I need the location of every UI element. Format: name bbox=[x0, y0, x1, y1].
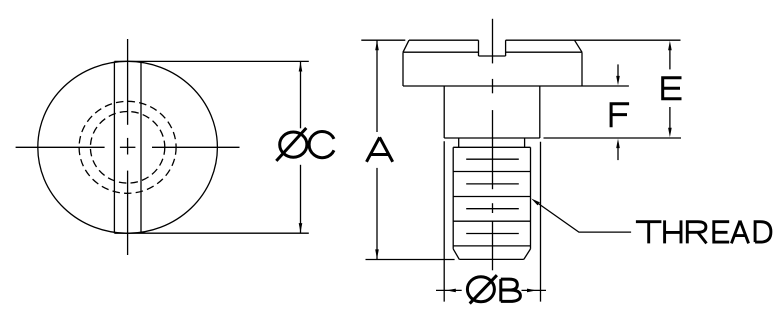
label ØC bbox=[280, 132, 307, 157]
ØB right extension line bbox=[540, 142, 542, 302]
ØB dimension line with arrows bbox=[436, 289, 462, 291]
head top-right chamfer bbox=[575, 40, 583, 52]
hidden circle - thread diameter (dashed) bbox=[90, 112, 164, 184]
thread end chamfers and bottom edge bbox=[453, 249, 459, 260]
F dimension lower arrow (outside, pointing up) bbox=[616, 139, 620, 149]
head top-left chamfer bbox=[403, 40, 409, 52]
slot (side view) bbox=[478, 40, 480, 56]
head left side bbox=[402, 52, 404, 86]
thread undercut bbox=[458, 138, 460, 147]
head bottom edge, continues as F extension line bbox=[403, 85, 629, 87]
A bottom extension line bbox=[366, 259, 455, 261]
shoulder bottom edge and F/E extension line bbox=[444, 137, 540, 139]
thread crest lines bbox=[453, 171, 530, 173]
THREAD leader line with arrowhead bbox=[531, 199, 540, 206]
slot right edge (top view) bbox=[140, 61, 142, 233]
label F bbox=[611, 104, 629, 128]
ØC top extension line bbox=[114, 60, 308, 62]
horizontal centerline (top view) bbox=[16, 146, 105, 148]
head top edge (side view) with slot gap, continues as E extension line bbox=[409, 39, 479, 41]
shoulder left side bbox=[443, 86, 445, 138]
E dimension line with arrows bbox=[669, 50, 671, 70]
vertical centerline (top view) bbox=[127, 39, 129, 125]
label ØB bbox=[467, 277, 494, 302]
thread left side bbox=[452, 147, 454, 249]
vertical centerline (side view) bbox=[492, 19, 494, 64]
hidden circle - body diameter (dashed) bbox=[79, 101, 176, 193]
thread top edge bbox=[453, 146, 530, 148]
ØC bottom extension line bbox=[114, 232, 308, 234]
A top extension line bbox=[361, 39, 405, 41]
screw head outline (top view) - circle ØC bbox=[38, 61, 218, 233]
F dimension upper arrow (outside, pointing down) bbox=[617, 64, 619, 76]
label E bbox=[663, 78, 682, 99]
ØC dimension line with arrows bbox=[300, 61, 302, 128]
thread root lines bbox=[466, 158, 519, 160]
shoulder right side bbox=[539, 86, 541, 138]
A dimension line with arrows bbox=[376, 40, 378, 132]
head fillet line bbox=[403, 51, 479, 53]
slot left edge (top view) bbox=[113, 61, 115, 233]
ØB left extension line bbox=[443, 141, 445, 301]
label THREAD bbox=[636, 220, 771, 243]
head right side bbox=[581, 52, 583, 86]
thread right side bbox=[530, 147, 532, 249]
label A bbox=[367, 137, 393, 162]
